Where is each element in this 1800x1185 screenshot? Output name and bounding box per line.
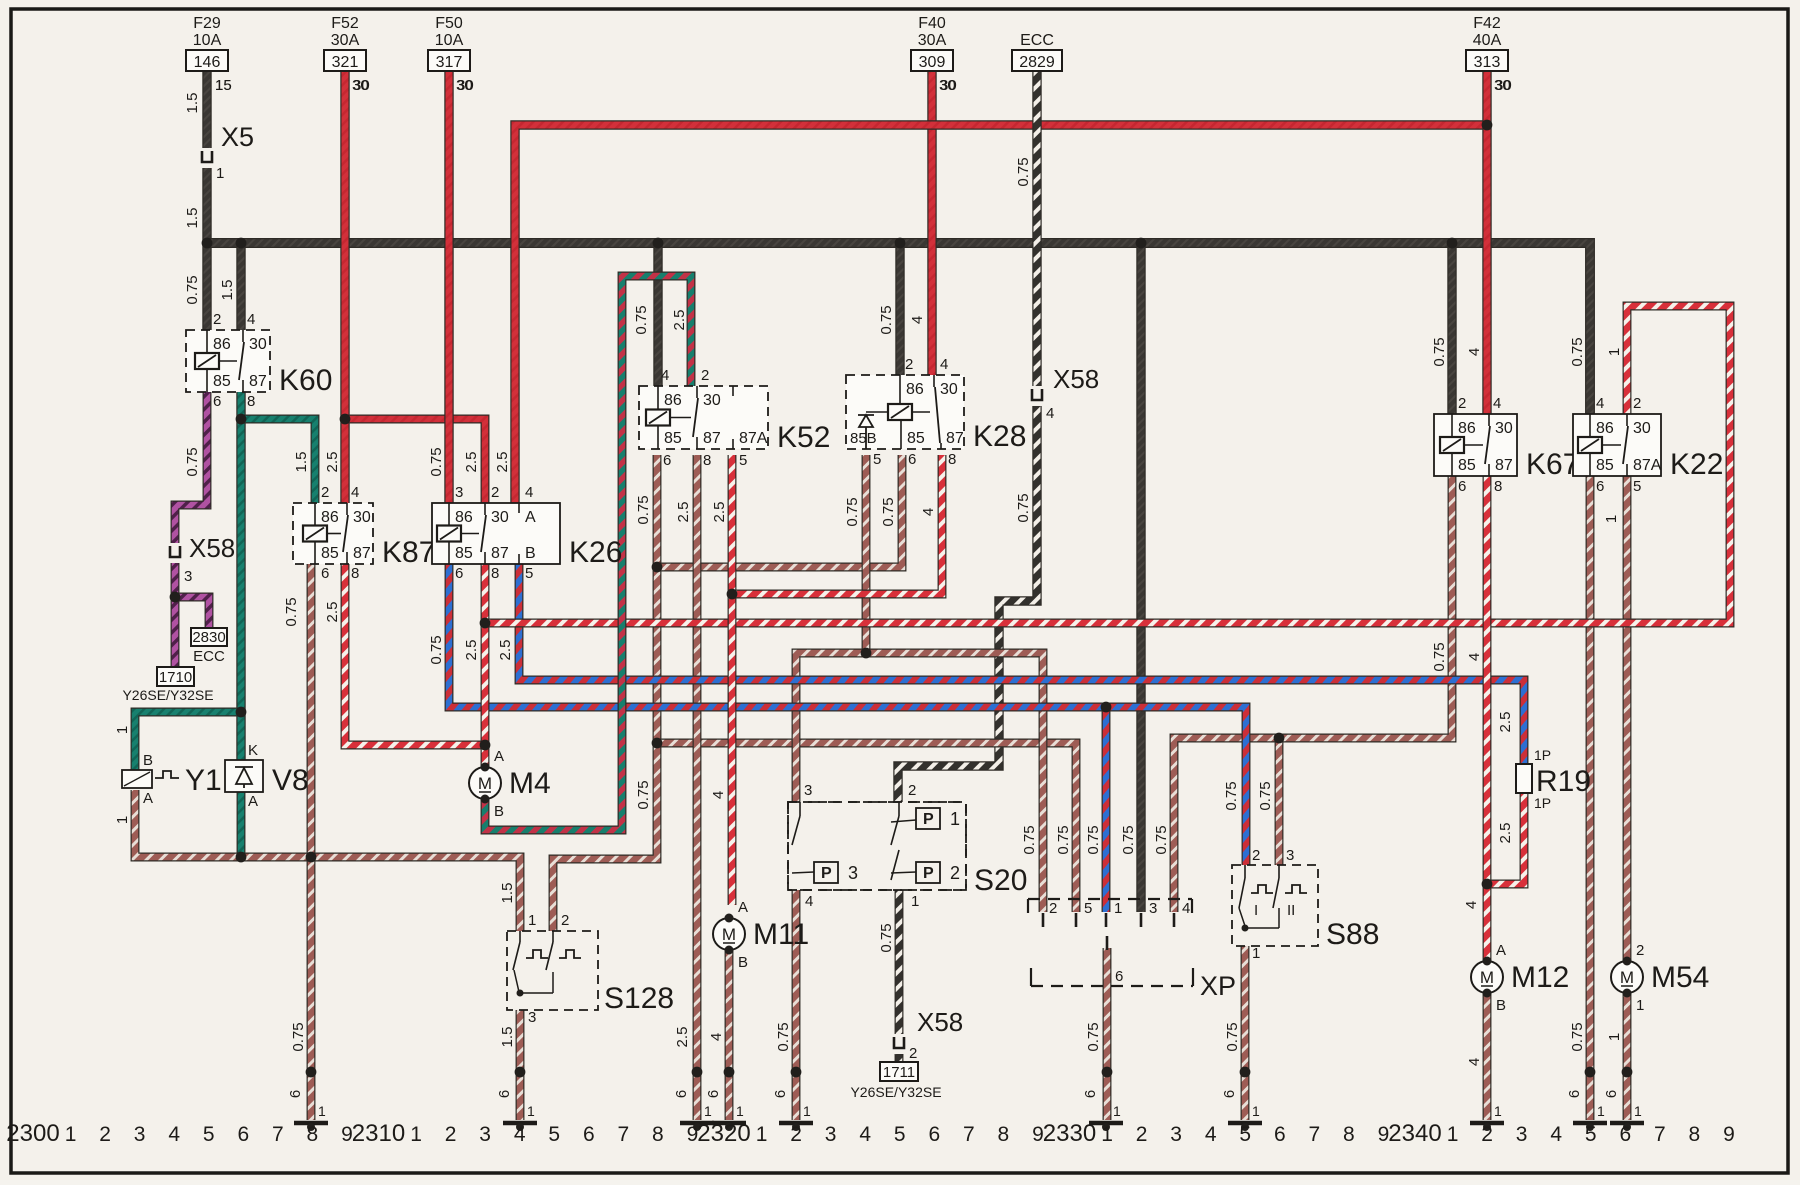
svg-text:2: 2 bbox=[1136, 1123, 1148, 1146]
svg-text:7: 7 bbox=[1309, 1123, 1321, 1146]
svg-text:86: 86 bbox=[455, 509, 473, 526]
svg-text:87: 87 bbox=[703, 430, 721, 447]
svg-text:6: 6 bbox=[213, 393, 221, 410]
svg-text:0.75: 0.75 bbox=[633, 305, 650, 334]
svg-text:87: 87 bbox=[946, 430, 964, 447]
svg-text:F52: F52 bbox=[331, 15, 359, 32]
svg-text:0.75: 0.75 bbox=[878, 305, 895, 334]
svg-text:5: 5 bbox=[525, 565, 533, 582]
svg-text:1: 1 bbox=[1603, 515, 1620, 523]
svg-text:5: 5 bbox=[873, 451, 881, 468]
svg-text:4: 4 bbox=[1046, 405, 1054, 422]
svg-text:3: 3 bbox=[455, 484, 463, 501]
svg-text:4: 4 bbox=[940, 356, 948, 373]
svg-text:2: 2 bbox=[909, 1045, 917, 1062]
svg-text:4: 4 bbox=[805, 893, 813, 910]
svg-text:1: 1 bbox=[803, 1103, 811, 1119]
svg-text:4: 4 bbox=[708, 1033, 725, 1041]
svg-text:4: 4 bbox=[525, 484, 533, 501]
svg-text:0.75: 0.75 bbox=[1223, 781, 1240, 810]
svg-text:8: 8 bbox=[1689, 1123, 1701, 1146]
svg-text:ECC: ECC bbox=[193, 648, 225, 665]
svg-text:K87: K87 bbox=[382, 536, 435, 569]
svg-text:2: 2 bbox=[908, 782, 916, 799]
svg-text:3: 3 bbox=[804, 782, 812, 799]
svg-text:1: 1 bbox=[1597, 1103, 1605, 1119]
svg-text:0.75: 0.75 bbox=[1569, 1022, 1586, 1051]
svg-text:F42: F42 bbox=[1473, 15, 1501, 32]
svg-text:9: 9 bbox=[1723, 1123, 1735, 1146]
svg-text:6: 6 bbox=[772, 1090, 789, 1098]
svg-text:3: 3 bbox=[1286, 847, 1294, 864]
svg-text:4: 4 bbox=[351, 484, 359, 501]
svg-text:30: 30 bbox=[1495, 420, 1513, 437]
svg-text:3: 3 bbox=[825, 1123, 837, 1146]
svg-text:4: 4 bbox=[1493, 395, 1501, 412]
svg-text:1.5: 1.5 bbox=[293, 452, 310, 473]
svg-text:7: 7 bbox=[272, 1123, 284, 1146]
svg-text:0.75: 0.75 bbox=[775, 1022, 792, 1051]
svg-text:0.75: 0.75 bbox=[878, 923, 895, 952]
svg-text:1: 1 bbox=[1606, 348, 1623, 356]
svg-text:7: 7 bbox=[618, 1123, 630, 1146]
svg-text:K26: K26 bbox=[569, 536, 622, 569]
svg-text:1: 1 bbox=[114, 816, 131, 824]
svg-text:Y26SE/Y32SE: Y26SE/Y32SE bbox=[850, 1084, 941, 1100]
svg-text:6: 6 bbox=[496, 1090, 513, 1098]
svg-text:S88: S88 bbox=[1326, 918, 1379, 951]
svg-text:6: 6 bbox=[1274, 1123, 1286, 1146]
svg-text:10A: 10A bbox=[193, 32, 222, 49]
svg-text:86: 86 bbox=[1596, 420, 1614, 437]
svg-text:2830: 2830 bbox=[192, 629, 225, 646]
svg-text:1: 1 bbox=[704, 1103, 712, 1119]
svg-text:M12: M12 bbox=[1511, 961, 1569, 994]
svg-text:1: 1 bbox=[1252, 1103, 1260, 1119]
svg-text:6: 6 bbox=[1596, 478, 1604, 495]
svg-text:30A: 30A bbox=[331, 32, 360, 49]
svg-text:1: 1 bbox=[410, 1123, 422, 1146]
svg-text:0.75: 0.75 bbox=[428, 635, 445, 664]
svg-text:2.5: 2.5 bbox=[463, 640, 480, 661]
svg-text:2: 2 bbox=[701, 367, 709, 384]
svg-text:1.5: 1.5 bbox=[184, 93, 201, 114]
svg-text:6: 6 bbox=[1221, 1090, 1238, 1098]
svg-text:4: 4 bbox=[514, 1123, 526, 1146]
svg-text:5: 5 bbox=[203, 1123, 215, 1146]
svg-text:313: 313 bbox=[1474, 54, 1501, 71]
svg-text:2: 2 bbox=[99, 1123, 111, 1146]
svg-text:2.5: 2.5 bbox=[671, 310, 688, 331]
svg-text:40A: 40A bbox=[1473, 32, 1502, 49]
svg-text:B: B bbox=[738, 954, 748, 971]
svg-text:85: 85 bbox=[907, 430, 925, 447]
svg-text:2.5: 2.5 bbox=[1497, 712, 1514, 733]
svg-text:6: 6 bbox=[1603, 1090, 1620, 1098]
svg-text:S128: S128 bbox=[604, 982, 674, 1015]
svg-text:1: 1 bbox=[1252, 945, 1260, 962]
svg-text:6: 6 bbox=[1566, 1090, 1583, 1098]
svg-text:1711: 1711 bbox=[883, 1064, 915, 1081]
svg-text:87A: 87A bbox=[739, 430, 768, 447]
svg-text:3: 3 bbox=[134, 1123, 146, 1146]
svg-text:0.75: 0.75 bbox=[844, 497, 861, 526]
svg-text:B: B bbox=[1496, 997, 1506, 1014]
svg-text:K52: K52 bbox=[777, 421, 830, 454]
svg-text:1: 1 bbox=[950, 809, 960, 829]
svg-text:M11: M11 bbox=[753, 918, 809, 951]
svg-text:2340: 2340 bbox=[1388, 1120, 1441, 1147]
svg-text:5: 5 bbox=[548, 1123, 560, 1146]
svg-text:2.5: 2.5 bbox=[675, 502, 692, 523]
svg-text:K22: K22 bbox=[1670, 448, 1723, 481]
svg-text:8: 8 bbox=[307, 1123, 319, 1146]
svg-text:2.5: 2.5 bbox=[711, 502, 728, 523]
svg-text:87: 87 bbox=[1495, 457, 1513, 474]
svg-text:0.75: 0.75 bbox=[1021, 825, 1038, 854]
svg-text:2: 2 bbox=[321, 484, 329, 501]
svg-text:146: 146 bbox=[194, 54, 221, 71]
svg-text:8: 8 bbox=[652, 1123, 664, 1146]
svg-text:1: 1 bbox=[114, 726, 131, 734]
svg-text:3: 3 bbox=[848, 863, 858, 883]
svg-text:K67: K67 bbox=[1526, 448, 1579, 481]
svg-text:3: 3 bbox=[1149, 900, 1157, 917]
svg-text:87: 87 bbox=[353, 545, 371, 562]
svg-text:3: 3 bbox=[528, 1009, 536, 1026]
svg-text:F50: F50 bbox=[435, 15, 463, 32]
svg-text:309: 309 bbox=[919, 54, 946, 71]
svg-text:F29: F29 bbox=[193, 15, 221, 32]
svg-text:4: 4 bbox=[247, 311, 255, 328]
svg-text:K: K bbox=[248, 742, 258, 759]
svg-text:30: 30 bbox=[1494, 77, 1511, 94]
svg-text:1: 1 bbox=[1634, 1103, 1642, 1119]
svg-text:A: A bbox=[494, 748, 504, 765]
svg-text:86: 86 bbox=[906, 381, 924, 398]
svg-text:K60: K60 bbox=[279, 364, 332, 397]
svg-text:30: 30 bbox=[352, 77, 369, 94]
svg-text:3: 3 bbox=[1170, 1123, 1182, 1146]
svg-text:K28: K28 bbox=[973, 420, 1026, 453]
svg-text:V8: V8 bbox=[272, 764, 309, 797]
svg-text:1.5: 1.5 bbox=[184, 208, 201, 229]
svg-text:2829: 2829 bbox=[1019, 54, 1055, 71]
svg-text:2: 2 bbox=[790, 1123, 802, 1146]
svg-text:7: 7 bbox=[963, 1123, 975, 1146]
svg-text:2: 2 bbox=[445, 1123, 457, 1146]
svg-text:Y1: Y1 bbox=[185, 764, 222, 797]
svg-text:1: 1 bbox=[65, 1123, 77, 1146]
svg-text:1: 1 bbox=[528, 912, 536, 929]
svg-text:30A: 30A bbox=[918, 32, 947, 49]
svg-text:2: 2 bbox=[950, 863, 960, 883]
svg-text:ECC: ECC bbox=[1020, 32, 1054, 49]
svg-text:85: 85 bbox=[1596, 457, 1614, 474]
svg-text:2.5: 2.5 bbox=[497, 640, 514, 661]
svg-text:1: 1 bbox=[318, 1103, 326, 1119]
svg-text:S20: S20 bbox=[974, 864, 1027, 897]
svg-text:2: 2 bbox=[1481, 1123, 1493, 1146]
svg-text:0.75: 0.75 bbox=[1153, 825, 1170, 854]
svg-text:X58: X58 bbox=[189, 533, 235, 563]
svg-text:1: 1 bbox=[1113, 1103, 1121, 1119]
svg-text:6: 6 bbox=[663, 452, 671, 469]
svg-text:321: 321 bbox=[332, 54, 359, 71]
svg-text:II: II bbox=[1287, 902, 1295, 919]
svg-text:1P: 1P bbox=[1534, 747, 1551, 763]
svg-text:1: 1 bbox=[527, 1103, 535, 1119]
svg-text:P: P bbox=[923, 865, 934, 882]
svg-text:P: P bbox=[821, 865, 832, 882]
svg-text:1: 1 bbox=[1606, 1033, 1623, 1041]
svg-text:87: 87 bbox=[491, 545, 509, 562]
svg-text:A: A bbox=[525, 509, 536, 526]
svg-text:0.75: 0.75 bbox=[283, 597, 300, 626]
svg-text:1: 1 bbox=[911, 893, 919, 910]
svg-text:7: 7 bbox=[1654, 1123, 1666, 1146]
svg-text:2310: 2310 bbox=[352, 1120, 405, 1147]
svg-text:1710: 1710 bbox=[159, 669, 192, 686]
svg-text:2300: 2300 bbox=[6, 1120, 59, 1147]
svg-text:0.75: 0.75 bbox=[428, 447, 445, 476]
svg-text:M: M bbox=[1480, 968, 1494, 987]
svg-text:85: 85 bbox=[664, 430, 682, 447]
svg-text:4: 4 bbox=[859, 1123, 871, 1146]
svg-text:A: A bbox=[1496, 942, 1506, 959]
svg-text:4: 4 bbox=[661, 367, 669, 384]
svg-text:6: 6 bbox=[455, 565, 463, 582]
svg-text:4: 4 bbox=[1463, 901, 1480, 909]
svg-text:85: 85 bbox=[213, 373, 231, 390]
svg-text:6: 6 bbox=[583, 1123, 595, 1146]
svg-text:R19: R19 bbox=[1536, 765, 1591, 798]
svg-text:2: 2 bbox=[1458, 395, 1466, 412]
svg-text:30: 30 bbox=[1633, 420, 1651, 437]
svg-text:2: 2 bbox=[905, 356, 913, 373]
svg-text:Y26SE/Y32SE: Y26SE/Y32SE bbox=[122, 687, 213, 703]
svg-text:0.75: 0.75 bbox=[1085, 1022, 1102, 1051]
svg-text:M4: M4 bbox=[509, 767, 551, 800]
svg-text:2320: 2320 bbox=[697, 1120, 750, 1147]
svg-text:30: 30 bbox=[353, 509, 371, 526]
svg-text:1: 1 bbox=[1494, 1103, 1502, 1119]
svg-text:4: 4 bbox=[710, 791, 727, 799]
svg-text:30: 30 bbox=[249, 336, 267, 353]
svg-text:0.75: 0.75 bbox=[184, 275, 201, 304]
svg-text:86: 86 bbox=[664, 392, 682, 409]
svg-text:X5: X5 bbox=[221, 122, 254, 152]
svg-text:30: 30 bbox=[703, 392, 721, 409]
svg-text:6: 6 bbox=[321, 565, 329, 582]
svg-text:2: 2 bbox=[1636, 942, 1644, 959]
svg-text:317: 317 bbox=[436, 54, 463, 71]
svg-text:0.75: 0.75 bbox=[635, 780, 652, 809]
svg-text:2.5: 2.5 bbox=[324, 602, 341, 623]
svg-text:6: 6 bbox=[287, 1090, 304, 1098]
svg-text:15: 15 bbox=[215, 77, 232, 94]
svg-text:8: 8 bbox=[1494, 478, 1502, 495]
svg-text:6: 6 bbox=[237, 1123, 249, 1146]
svg-text:2330: 2330 bbox=[1043, 1120, 1096, 1147]
svg-text:2: 2 bbox=[491, 484, 499, 501]
svg-text:B: B bbox=[525, 545, 536, 562]
svg-text:5: 5 bbox=[1633, 478, 1641, 495]
svg-text:5: 5 bbox=[1239, 1123, 1251, 1146]
svg-text:A: A bbox=[738, 899, 748, 916]
svg-text:XP: XP bbox=[1200, 971, 1236, 1001]
svg-text:8: 8 bbox=[998, 1123, 1010, 1146]
svg-text:6: 6 bbox=[1619, 1123, 1631, 1146]
svg-text:2: 2 bbox=[1633, 395, 1641, 412]
svg-text:6: 6 bbox=[705, 1090, 722, 1098]
svg-text:86: 86 bbox=[1458, 420, 1476, 437]
svg-text:A: A bbox=[143, 790, 153, 807]
svg-text:4: 4 bbox=[920, 508, 937, 516]
svg-text:1: 1 bbox=[1636, 997, 1644, 1014]
svg-text:86: 86 bbox=[321, 509, 339, 526]
svg-text:6: 6 bbox=[1082, 1090, 1099, 1098]
svg-text:2.5: 2.5 bbox=[674, 1027, 691, 1048]
svg-text:4: 4 bbox=[168, 1123, 180, 1146]
svg-text:4: 4 bbox=[1205, 1123, 1217, 1146]
svg-text:0.75: 0.75 bbox=[290, 1022, 307, 1051]
svg-text:0.75: 0.75 bbox=[1257, 781, 1274, 810]
svg-text:X58: X58 bbox=[1053, 364, 1099, 394]
svg-text:8: 8 bbox=[351, 565, 359, 582]
svg-text:85: 85 bbox=[321, 545, 339, 562]
svg-text:2: 2 bbox=[1252, 847, 1260, 864]
svg-text:30: 30 bbox=[940, 381, 958, 398]
svg-text:4: 4 bbox=[1466, 653, 1483, 661]
svg-text:0.75: 0.75 bbox=[635, 495, 652, 524]
svg-text:1: 1 bbox=[1114, 900, 1122, 917]
svg-text:87A: 87A bbox=[1633, 457, 1662, 474]
svg-text:0.75: 0.75 bbox=[1055, 825, 1072, 854]
svg-text:6: 6 bbox=[908, 451, 916, 468]
svg-text:85: 85 bbox=[455, 545, 473, 562]
svg-text:B: B bbox=[143, 752, 153, 769]
svg-text:6: 6 bbox=[1115, 968, 1123, 985]
svg-text:1.5: 1.5 bbox=[219, 280, 236, 301]
svg-text:0.75: 0.75 bbox=[1431, 642, 1448, 671]
svg-text:30: 30 bbox=[491, 509, 509, 526]
svg-text:M: M bbox=[1620, 968, 1634, 987]
svg-text:10A: 10A bbox=[435, 32, 464, 49]
svg-text:8: 8 bbox=[247, 393, 255, 410]
svg-text:6: 6 bbox=[673, 1090, 690, 1098]
svg-text:0.75: 0.75 bbox=[1085, 825, 1102, 854]
svg-text:2.5: 2.5 bbox=[1497, 823, 1514, 844]
svg-text:0.75: 0.75 bbox=[880, 497, 897, 526]
svg-text:85: 85 bbox=[1458, 457, 1476, 474]
svg-text:A: A bbox=[248, 793, 258, 810]
svg-text:8: 8 bbox=[491, 565, 499, 582]
svg-text:4: 4 bbox=[1466, 1058, 1483, 1066]
svg-text:5: 5 bbox=[894, 1123, 906, 1146]
svg-text:1: 1 bbox=[216, 165, 224, 182]
svg-text:I: I bbox=[1254, 902, 1258, 919]
svg-text:1.5: 1.5 bbox=[499, 883, 516, 904]
svg-text:1.5: 1.5 bbox=[499, 1027, 516, 1048]
svg-text:1: 1 bbox=[736, 1103, 744, 1119]
svg-text:5: 5 bbox=[1585, 1123, 1597, 1146]
svg-text:B: B bbox=[494, 803, 504, 820]
svg-text:0.75: 0.75 bbox=[1224, 1022, 1241, 1051]
svg-text:0.75: 0.75 bbox=[1015, 157, 1032, 186]
svg-text:M54: M54 bbox=[1651, 961, 1709, 994]
svg-text:87: 87 bbox=[249, 373, 267, 390]
svg-text:4: 4 bbox=[1182, 900, 1190, 917]
svg-text:8: 8 bbox=[703, 452, 711, 469]
svg-text:2.5: 2.5 bbox=[463, 452, 480, 473]
svg-text:2: 2 bbox=[1049, 900, 1057, 917]
svg-text:0.75: 0.75 bbox=[1120, 825, 1137, 854]
svg-text:X58: X58 bbox=[917, 1007, 963, 1037]
svg-text:0.75: 0.75 bbox=[184, 447, 201, 476]
svg-text:5: 5 bbox=[739, 452, 747, 469]
svg-text:3: 3 bbox=[479, 1123, 491, 1146]
svg-text:M: M bbox=[478, 774, 492, 793]
svg-text:4: 4 bbox=[909, 316, 926, 324]
svg-text:0.75: 0.75 bbox=[1431, 337, 1448, 366]
svg-text:4: 4 bbox=[1466, 348, 1483, 356]
svg-text:8: 8 bbox=[948, 451, 956, 468]
svg-text:4: 4 bbox=[1550, 1123, 1562, 1146]
svg-text:8: 8 bbox=[1343, 1123, 1355, 1146]
svg-text:30: 30 bbox=[939, 77, 956, 94]
svg-text:2: 2 bbox=[561, 912, 569, 929]
svg-text:0.75: 0.75 bbox=[1569, 337, 1586, 366]
svg-text:M: M bbox=[722, 925, 736, 944]
svg-text:3: 3 bbox=[1516, 1123, 1528, 1146]
svg-text:F40: F40 bbox=[918, 15, 946, 32]
svg-text:2.5: 2.5 bbox=[324, 452, 341, 473]
svg-text:3: 3 bbox=[184, 568, 192, 585]
svg-text:4: 4 bbox=[1596, 395, 1604, 412]
svg-text:2.5: 2.5 bbox=[494, 452, 511, 473]
svg-text:1: 1 bbox=[756, 1123, 768, 1146]
svg-text:2: 2 bbox=[213, 311, 221, 328]
svg-text:P: P bbox=[923, 811, 934, 828]
svg-text:30: 30 bbox=[456, 77, 473, 94]
svg-text:85B: 85B bbox=[850, 430, 877, 447]
svg-text:6: 6 bbox=[928, 1123, 940, 1146]
svg-text:5: 5 bbox=[1084, 900, 1092, 917]
svg-text:0.75: 0.75 bbox=[1015, 493, 1032, 522]
svg-text:1: 1 bbox=[1101, 1123, 1113, 1146]
svg-text:86: 86 bbox=[213, 336, 231, 353]
svg-text:6: 6 bbox=[1458, 478, 1466, 495]
svg-text:1: 1 bbox=[1447, 1123, 1459, 1146]
